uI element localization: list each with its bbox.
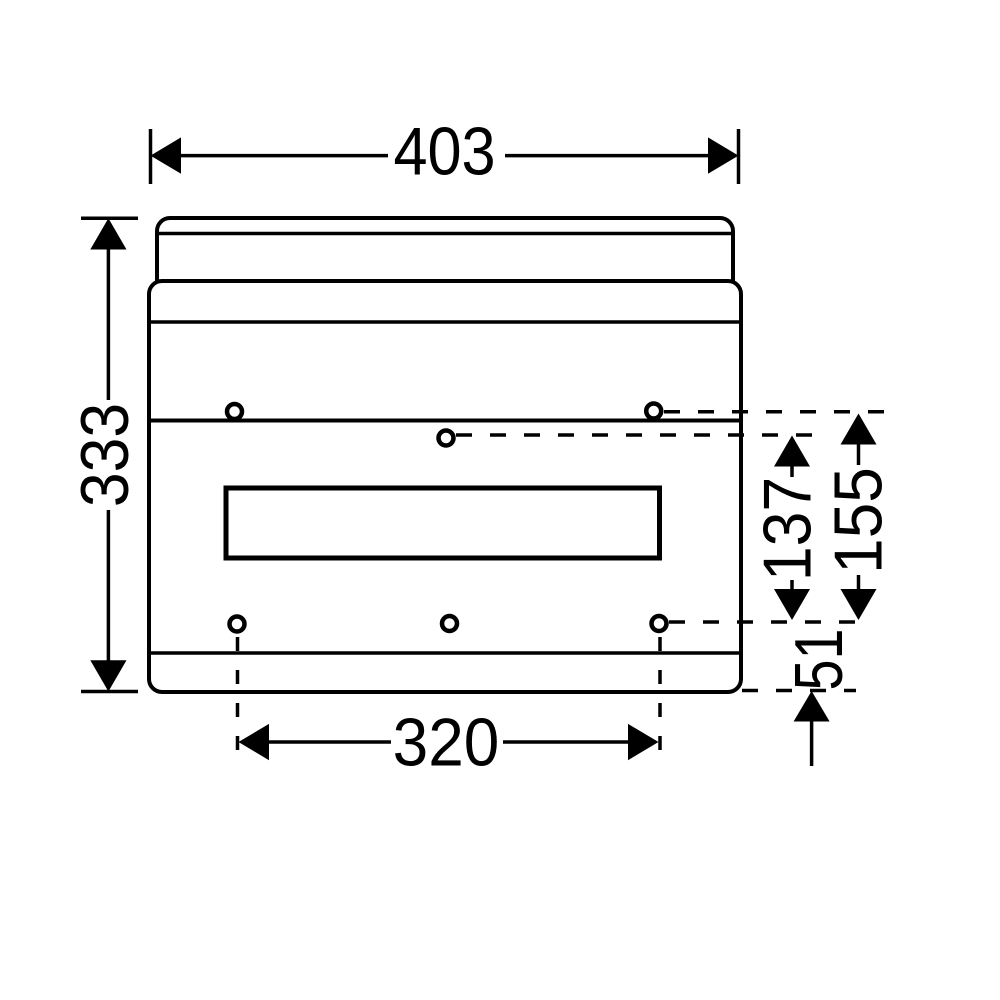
body upper edge line <box>150 320 740 324</box>
dim403 extension tick right <box>737 129 741 184</box>
dim403 arrowhead right <box>708 137 739 173</box>
hole bottom-left <box>230 617 245 632</box>
svg-text:403: 403 <box>393 113 495 190</box>
dim333 arrowhead up <box>90 218 126 249</box>
svg-text:137: 137 <box>749 477 825 581</box>
dim333 extension tick top <box>81 216 138 220</box>
hole bottom-right <box>652 616 667 631</box>
dashed vertical right hole <box>658 637 662 760</box>
dim137 line lower <box>790 580 794 591</box>
dim155 arrowhead up <box>841 414 877 445</box>
dim333 line upper <box>107 249 111 400</box>
body middle edge line <box>150 419 740 423</box>
dim137 arrowhead down <box>774 589 810 620</box>
dim403 line right <box>505 154 710 158</box>
dim320 arrowhead right <box>628 724 659 760</box>
dim403 arrowhead left <box>151 137 182 173</box>
dashed leader top holes <box>664 410 884 414</box>
hole middle <box>439 431 454 446</box>
svg-text:155: 155 <box>820 467 896 574</box>
dim137 line upper <box>790 464 794 477</box>
dashed vertical left hole <box>236 637 240 760</box>
dim320 line left <box>268 740 391 744</box>
dim403 line left <box>179 154 388 158</box>
dim155 arrowhead down <box>841 589 877 620</box>
dashed leader body bottom <box>742 689 856 693</box>
svg-text:51: 51 <box>782 628 857 690</box>
dashed leader middle hole <box>456 433 812 437</box>
hole top-left <box>227 404 242 419</box>
dim137 arrowhead up <box>774 436 810 467</box>
dim51 arrowhead up <box>794 691 830 722</box>
dim51 arrow tail <box>810 720 814 766</box>
cutout rectangle <box>226 488 660 558</box>
body lower edge line <box>150 651 740 655</box>
dim333 extension tick bottom <box>81 690 138 694</box>
dim155 line upper <box>857 443 861 465</box>
dim320 arrowhead left <box>239 724 270 760</box>
dim333 arrowhead down <box>90 660 126 691</box>
svg-text:333: 333 <box>67 403 143 507</box>
dim403 extension tick left <box>149 129 153 184</box>
enclosure lid outline <box>157 218 733 282</box>
hole bottom-middle <box>442 616 457 631</box>
hole top-right <box>646 404 661 419</box>
lid inner edge line <box>158 232 732 236</box>
dim333 line lower <box>107 510 111 662</box>
dim320 line right <box>503 740 629 744</box>
dim155 line lower <box>857 575 861 591</box>
enclosure body outline <box>149 281 741 692</box>
svg-text:320: 320 <box>393 704 500 780</box>
dashed leader bottom holes <box>669 620 866 624</box>
